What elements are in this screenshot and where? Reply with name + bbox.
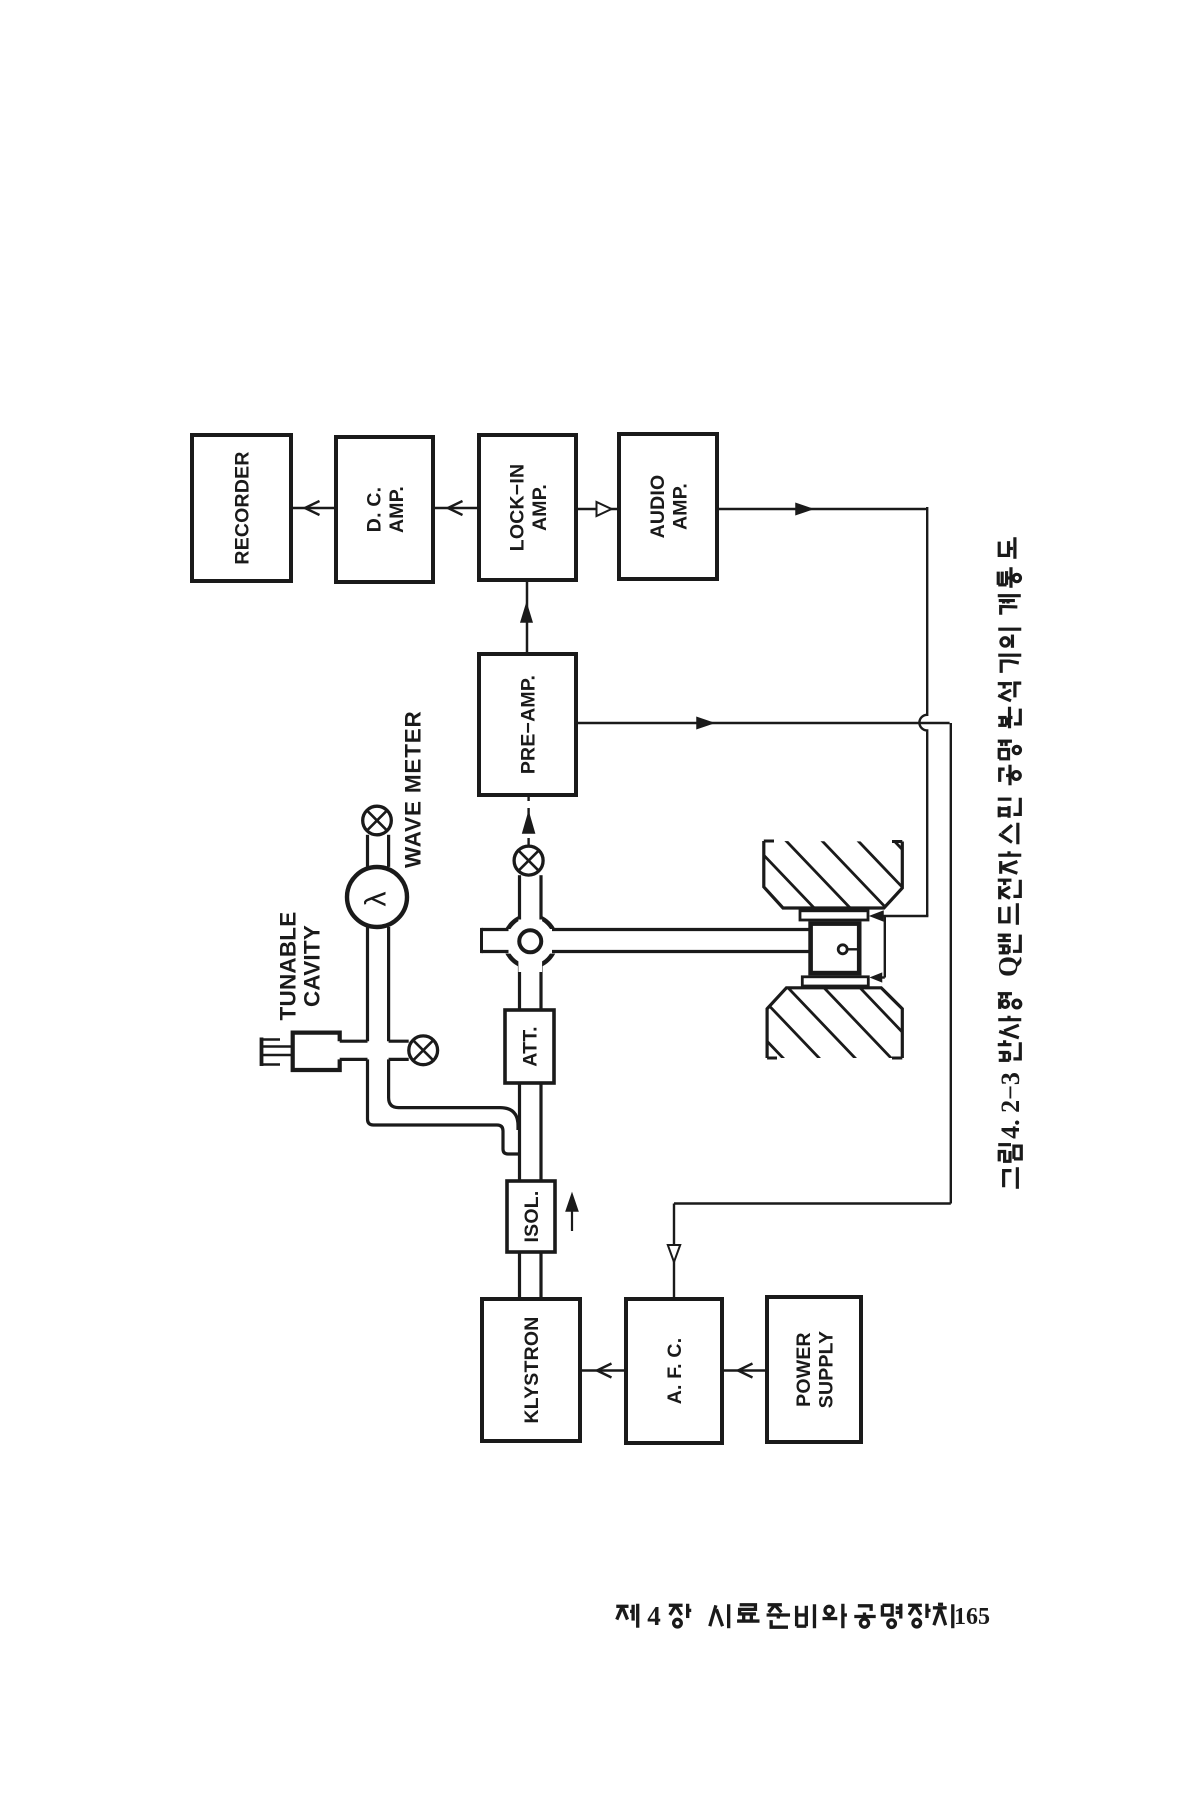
box KLYSTRON — [482, 1299, 580, 1441]
footer glyph 장 — [669, 1604, 691, 1627]
svg-text:ISOL.: ISOL. — [521, 1191, 543, 1243]
caption glyph 핀 — [998, 798, 1021, 818]
wire PRE-AMP to LOCK-IN — [526, 580, 529, 654]
detector crystal above wave meter — [363, 806, 392, 835]
waveguide KLYSTRON to ISOL — [518, 1252, 521, 1299]
wave meter (cavity meter) — [347, 867, 407, 927]
svg-text:CAVITY: CAVITY — [300, 925, 325, 1007]
svg-text:Q: Q — [993, 956, 1023, 977]
caption glyph 사 — [998, 1016, 1021, 1038]
caption glyph 석 — [998, 683, 1022, 701]
svg-text:AMP.: AMP. — [669, 483, 691, 530]
svg-text:LOCK−IN: LOCK−IN — [506, 464, 528, 552]
caption glyph 반 — [998, 1040, 1021, 1060]
footer glyph 명 — [882, 1604, 900, 1628]
waveguide wavemeter arm upper (to detector) — [366, 835, 369, 867]
svg-text:AMP.: AMP. — [529, 484, 551, 531]
box A.F.C. — [626, 1299, 722, 1443]
sample cavity in magnet gap — [811, 924, 860, 974]
svg-text:SUPPLY: SUPPLY — [815, 1331, 837, 1408]
caption glyph 의 — [998, 629, 1021, 648]
arrow wave direction beside ISOL — [571, 1206, 573, 1231]
caption glyph 그 — [1004, 1167, 1018, 1189]
svg-text:RECORDER: RECORDER — [232, 451, 254, 564]
caption glyph 자 — [998, 851, 1021, 874]
svg-text:AUDIO: AUDIO — [647, 475, 669, 539]
waveguide elbow to main run — [368, 1119, 520, 1154]
svg-text:PRE−AMP.: PRE−AMP. — [518, 675, 540, 774]
caption glyph 통 — [998, 567, 1020, 588]
wire AUDIO.AMP to modulation coils (right loop with hop) — [717, 508, 925, 511]
box ATT — [505, 1010, 554, 1083]
box LOCK-IN AMP — [479, 435, 576, 580]
svg-text:4: 4 — [647, 1601, 661, 1631]
box D.C. AMP — [336, 437, 433, 582]
caption glyph 림 — [998, 1145, 1021, 1162]
svg-text:POWER: POWER — [793, 1332, 815, 1407]
svg-text:KLYSTRON: KLYSTRON — [521, 1316, 543, 1423]
footer glyph 치 — [933, 1604, 953, 1628]
tee left stub (matched load port) — [482, 928, 509, 931]
footer glyph 준 — [767, 1605, 790, 1627]
4-way cross at tunable cavity — [366, 1059, 369, 1119]
wire A.F.C. to KLYSTRON — [580, 1369, 626, 1372]
svg-text:165: 165 — [954, 1604, 990, 1630]
box AUDIO AMP — [619, 434, 717, 579]
footer glyph 와 — [822, 1604, 846, 1628]
waveguide ISOL to ATT — [518, 1083, 521, 1181]
footer glyph 장 — [908, 1604, 930, 1627]
wire LOCK-IN to AUDIO.AMP — [576, 508, 619, 511]
box ISOL — [507, 1181, 555, 1252]
tunable cavity box — [293, 1033, 340, 1070]
hybrid tee junction (circulator) — [505, 916, 556, 967]
dashed arrow detector to PRE-AMP — [527, 796, 529, 846]
waveguide wavemeter arm lower — [366, 927, 369, 1041]
tuning plunger — [262, 1045, 293, 1048]
caption glyph 분 — [998, 707, 1020, 729]
top pole cap — [800, 911, 868, 920]
caption glyph 스 — [999, 823, 1018, 845]
bottom pole cap — [802, 977, 868, 986]
caption glyph 전 — [998, 880, 1021, 900]
svg-text:AMP.: AMP. — [386, 486, 408, 533]
footer glyph 료 — [737, 1605, 759, 1621]
wire LOCK-IN to DC.AMP — [433, 507, 479, 510]
svg-text:A. F. C.: A. F. C. — [664, 1338, 686, 1405]
footer glyph 비 — [797, 1604, 815, 1628]
caption glyph 드 — [1000, 903, 1018, 925]
wire DC.AMP to RECORDER — [291, 507, 336, 510]
svg-text:TUNABLE: TUNABLE — [276, 912, 301, 1021]
caption glyph 명 — [998, 741, 1021, 759]
box PRE-AMP — [479, 654, 576, 795]
svg-text:ATT.: ATT. — [520, 1026, 542, 1067]
detector crystal (to PRE-AMP) — [514, 846, 543, 875]
wire PRE-AMP to A.F.C. (feedback loop) — [576, 722, 950, 724]
caption glyph 밴 — [998, 935, 1021, 953]
caption glyph 공 — [1000, 765, 1021, 786]
svg-text:λ: λ — [360, 892, 393, 907]
footer glyph 공 — [854, 1606, 875, 1627]
detector crystal right of cavity cross — [409, 1036, 438, 1065]
svg-text:4. 2−3: 4. 2−3 — [996, 1072, 1025, 1139]
caption glyph 도 — [999, 537, 1015, 559]
svg-text:WAVE METER: WAVE METER — [401, 710, 426, 868]
box RECORDER — [192, 435, 291, 581]
wire to top modulation coil — [873, 915, 928, 917]
magnet bottom pole piece — [767, 988, 902, 1058]
caption glyph 계 — [998, 596, 1021, 615]
footer glyph 시 — [710, 1604, 729, 1628]
caption glyph 기 — [998, 655, 1021, 673]
waveguide tee to cavity — [552, 928, 811, 931]
tunable cavity neck — [340, 1040, 368, 1043]
box POWER SUPPLY — [767, 1297, 861, 1442]
sample (coupling iris detail) — [838, 945, 847, 954]
caption glyph 형 — [998, 994, 1021, 1009]
wire branch to bottom modulation coil — [884, 916, 886, 978]
footer glyph 제 — [616, 1604, 637, 1628]
waveguide ATT to hybrid tee — [518, 964, 521, 1011]
tee center circle — [519, 930, 541, 952]
wire POWER.SUPPLY to A.F.C. — [722, 1369, 767, 1372]
magnet top pole piece — [764, 841, 903, 908]
svg-text:D. C.: D. C. — [363, 487, 385, 532]
